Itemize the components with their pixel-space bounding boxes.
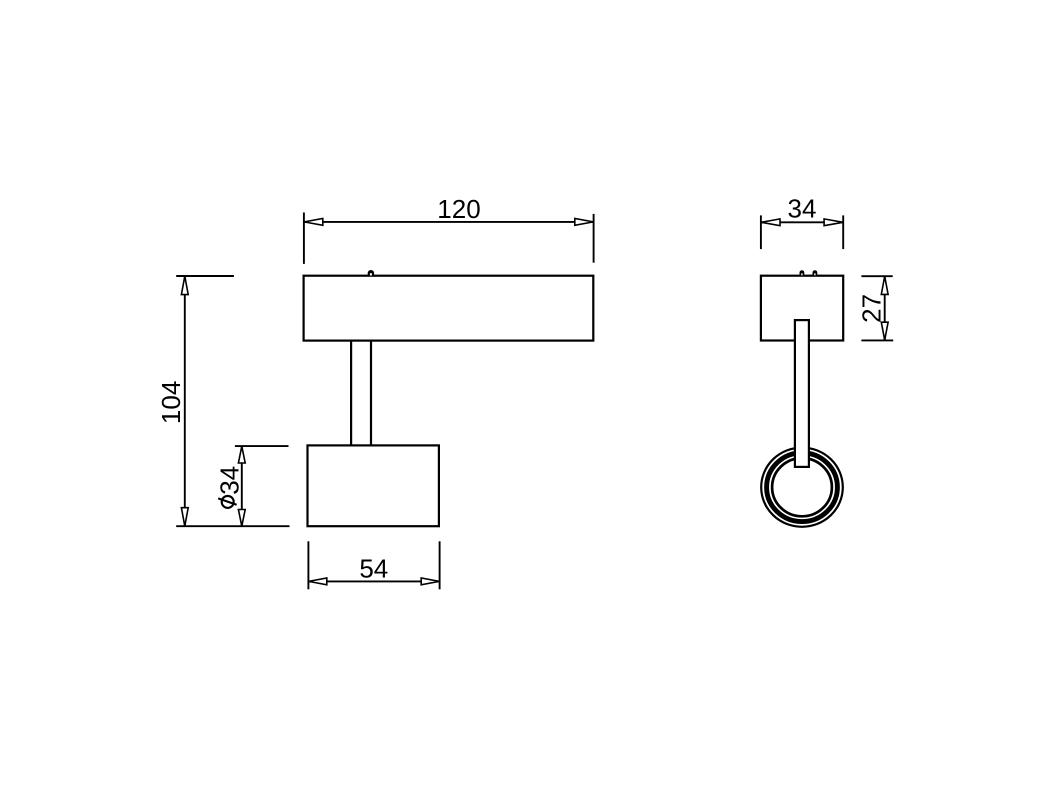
dimension 120: dimension line xyxy=(304,221,594,223)
side view: housing box xyxy=(761,276,843,341)
svg-text:104: 104 xyxy=(156,381,186,424)
dimension 104: value label (rotated) xyxy=(156,381,186,424)
dimension 104: top arrowhead xyxy=(181,276,188,295)
dimension 104: top extension line xyxy=(176,275,234,277)
dimension dia34: bottom arrowhead xyxy=(238,510,245,527)
dimension 120: right arrowhead xyxy=(575,219,594,226)
dimension 120: left arrowhead xyxy=(304,219,323,226)
side view: ring middle thick band xyxy=(767,453,838,522)
dimension 34 side: right extension line xyxy=(842,215,844,249)
dimension 54: left arrowhead xyxy=(309,578,327,585)
front view: top mounting bar xyxy=(304,276,594,341)
svg-text:54: 54 xyxy=(359,554,388,584)
front view: spotlight head box xyxy=(308,445,439,526)
dimension dia34: top extension line xyxy=(235,445,289,447)
dimension dia34: value label digits (rotated) xyxy=(214,466,244,495)
svg-text:120: 120 xyxy=(437,194,480,224)
dimension 120: value label xyxy=(437,194,480,224)
side view: stem (covers ring and box bottom line) xyxy=(795,320,809,467)
dimension 27: bottom extension line xyxy=(861,339,893,341)
side view: ring inner circle xyxy=(772,458,832,516)
front view: screw bump on top of bar xyxy=(368,270,374,276)
dimension dia34: diameter symbol slash xyxy=(218,498,236,504)
dimension 34 side: right arrowhead xyxy=(824,219,843,226)
dimension 34 side: dimension line xyxy=(761,221,843,223)
dimension dia34: top arrowhead xyxy=(238,446,245,463)
dimension 27: top arrowhead xyxy=(881,276,888,294)
side view: right screw bump on top xyxy=(813,270,818,276)
svg-text:27: 27 xyxy=(857,294,887,323)
dimension 54: dimension line xyxy=(308,580,439,582)
dimension 34 side: value label xyxy=(788,194,817,224)
dimension 104: bottom extension line xyxy=(176,525,289,527)
side view: ring outer circle xyxy=(761,448,843,527)
dimension dia34: diameter symbol circle xyxy=(222,496,234,508)
front view: stem right wire xyxy=(370,341,372,446)
dimension 54: left extension line xyxy=(307,541,309,589)
side view: left screw bump on top xyxy=(800,270,805,276)
front view: stem left wire xyxy=(350,341,352,446)
dimension 120: right extension line xyxy=(593,214,595,263)
svg-text:34: 34 xyxy=(788,194,817,224)
dimension 27: value label (rotated) xyxy=(857,294,887,323)
dimension 34 side: left arrowhead xyxy=(761,219,780,226)
svg-text:34: 34 xyxy=(214,466,244,495)
dimension 34 side: left extension line xyxy=(760,215,762,249)
dimension 54: right extension line xyxy=(439,541,441,589)
dimension 27: dimension line xyxy=(884,276,886,340)
dimension 27: bottom arrowhead xyxy=(881,322,888,340)
dimension 104: dimension line xyxy=(184,276,186,526)
dimension 120: left extension line xyxy=(303,213,305,264)
dimension 54: right arrowhead xyxy=(421,578,439,585)
dimension 104: bottom arrowhead xyxy=(181,508,188,527)
dimension 54: value label xyxy=(359,554,388,584)
dimension dia34: dimension line xyxy=(241,446,243,526)
dimension 27: top extension line xyxy=(861,275,892,277)
